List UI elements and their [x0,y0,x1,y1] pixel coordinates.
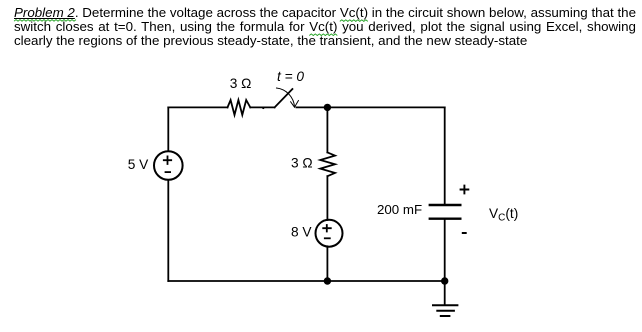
wire: bottom horizontal [168,280,444,282]
wire: 8V source to bottom node [326,246,328,281]
voltage source V1 5V circle [154,151,183,180]
svg-text:5 V: 5 V [128,157,149,172]
switch S1 closing-direction arc arrow [277,88,299,107]
wire: switch contact to node A [296,106,327,108]
resistor R2 3-ohm (middle) vertical zigzag [320,152,335,176]
wire: right vertical upper [444,107,446,204]
svg-text:3 Ω: 3 Ω [291,156,313,171]
junction dot bottom middle [324,277,331,284]
resistor R1 3-ohm (top) zigzag [228,100,251,115]
capacitor plus polarity mark [460,185,470,195]
capacitor C1 bottom plate [430,217,461,219]
polarity marks inside V1 (plus/minus) [163,156,172,173]
green grammar-check squiggles under "Problem 2." and "Vc(t)" [0,0,642,40]
wire: node A to top-right corner [327,106,444,108]
voltage source V2 8V circle [316,220,343,247]
capacitor C1 top plate [430,204,461,206]
svg-text:3 Ω: 3 Ω [230,76,252,91]
wire: left vertical upper [167,107,169,151]
wire: resistor to switch pivot [250,106,274,108]
node A junction dot (top middle) [324,104,331,111]
capacitor minus polarity mark [462,232,467,234]
junction dot bottom right [441,277,448,284]
wire: resistor to 8V source [326,176,328,220]
svg-text:VC(t): VC(t) [489,206,518,223]
wire: middle vertical upper [326,107,328,152]
svg-text:200 mF: 200 mF [377,202,422,217]
wire: top-left horizontal segment [168,106,227,108]
svg-text:8 V: 8 V [291,225,312,240]
wire: left vertical lower [167,180,169,281]
switch S1 blade (open, closes at t=0) [275,89,293,107]
ground symbol bars [433,304,457,306]
polarity marks inside V2 (plus/minus) [322,224,331,238]
wire: ground stem [444,281,446,305]
svg-text:t = 0: t = 0 [277,69,304,84]
wire: right vertical lower [444,220,446,281]
problem statement paragraph [14,6,636,49]
tiny node dot on wire [262,107,264,109]
